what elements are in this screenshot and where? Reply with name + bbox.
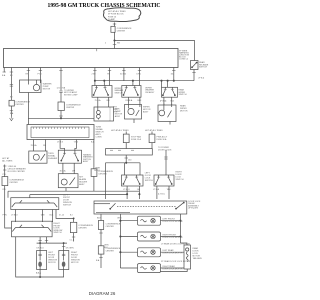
svg-text:2 B.I: 2 B.I: [92, 74, 97, 76]
connector outputs: [34, 140, 77, 152]
wiper switch S1: [92, 86, 112, 98]
svg-text:FUSE 15 A: FUSE 15 A: [131, 138, 142, 141]
switch assembly L2: [58, 150, 81, 163]
svg-text:CONN: CONN: [96, 137, 102, 139]
svg-text:DOOR LOCK MOTOR: DOOR LOCK MOTOR: [163, 269, 184, 271]
strip output: [125, 155, 127, 163]
svg-text:SWITCH: SWITCH: [199, 67, 207, 69]
wire from S9: [193, 70, 195, 81]
door lock switch feed right: [165, 150, 167, 175]
lock motor DM3: [138, 248, 161, 257]
svg-text:DK GRN: DK GRN: [66, 248, 74, 250]
svg-text:PPN: PPN: [3, 215, 8, 217]
svg-text:DK BLU: DK BLU: [37, 248, 45, 250]
svg-text:LT BLU: LT BLU: [11, 215, 18, 217]
fuse F6: [70, 222, 76, 232]
power source blob callout: [104, 8, 141, 22]
svg-text:FUSE 16: FUSE 16: [108, 16, 117, 18]
svg-text:I/P FUSE BLOCK: I/P FUSE BLOCK: [108, 14, 124, 16]
tailgate actuator: [184, 245, 191, 269]
svg-text:ASSY: ASSY: [83, 160, 89, 163]
S3 outputs: [164, 97, 172, 105]
rail node: [95, 80, 194, 82]
svg-text:T.SA: T.SA: [74, 141, 79, 144]
svg-text:RN B.A: RN B.A: [126, 99, 133, 102]
circuit breaker CB1: [2, 177, 8, 186]
svg-text:TAN: TAN: [41, 214, 45, 217]
svg-text:TM: TM: [107, 74, 110, 76]
svg-text:P B.I: P B.I: [38, 74, 43, 76]
hazard flasher L1: [29, 151, 47, 163]
svg-text:DR LK: DR LK: [94, 170, 101, 172]
switch S3: [162, 87, 178, 97]
svg-text:MOTOR: MOTOR: [71, 262, 79, 264]
svg-text:79 B.A: 79 B.A: [95, 99, 102, 102]
svg-text:HOT AT ALL TIMES: HOT AT ALL TIMES: [108, 10, 126, 13]
fuse F4: [123, 134, 129, 143]
svg-text:DPN: DPN: [137, 74, 142, 76]
svg-text:CENTER: CENTER: [15, 104, 24, 106]
steering column connector block: [27, 125, 94, 140]
pin wires below bulkhead box, left: [4, 68, 11, 101]
right feed rail: [173, 68, 175, 81]
wiper switch S2: [122, 86, 141, 98]
master switch outputs: [16, 210, 53, 223]
svg-text:DOOR LOCK MOTOR: DOOR LOCK MOTOR: [163, 253, 184, 255]
node J1: [114, 40, 115, 41]
svg-text:SWITCH: SWITCH: [145, 180, 153, 182]
svg-text:RT REAR DOOR LOCK MOTOR: RT REAR DOOR LOCK MOTOR: [161, 260, 191, 263]
svg-text:JT B.S: JT B.S: [57, 142, 64, 144]
lock motor DM1: [138, 216, 161, 225]
svg-text:IN CONV CENTER: IN CONV CENTER: [8, 171, 26, 173]
svg-text:CENTER: CENTER: [106, 226, 115, 228]
svg-text:5 L.A: 5 L.A: [59, 214, 64, 217]
door lock switch SA: [122, 175, 144, 186]
fuse F3 feed: [93, 140, 95, 169]
fuse C1: [9, 100, 14, 106]
svg-text:BLK: BLK: [138, 100, 142, 102]
ground G103: [10, 117, 14, 121]
SA SB outputs: [127, 186, 169, 199]
fuse F7: [98, 246, 104, 254]
switch label: [115, 88, 124, 95]
svg-text:BLK: BLK: [50, 215, 54, 217]
svg-text:1995-98 GM TRUCK CHASSIS SCHEM: 1995-98 GM TRUCK CHASSIS SCHEMATIC: [48, 2, 161, 9]
power window feed label: [2, 157, 13, 163]
svg-text:SW ASSY: SW ASSY: [145, 91, 155, 94]
svg-text:CENTER: CENTER: [117, 31, 126, 33]
lock motor DM2: [138, 232, 161, 241]
svg-text:CENTER: CENTER: [9, 182, 18, 184]
S2 output wires: [129, 97, 140, 103]
svg-text:78 B.A: 78 B.A: [31, 144, 38, 147]
motor module MB: [125, 105, 142, 120]
L2 outputs: [63, 163, 74, 174]
svg-text:ASSY: ASSY: [79, 183, 85, 186]
text block I/P harness: [179, 50, 190, 60]
wire CB to right window switch: [5, 186, 12, 228]
S1 output wires: [98, 97, 109, 107]
branch wires to lock motors: [120, 221, 137, 268]
svg-text:SWITCH: SWITCH: [179, 94, 187, 96]
svg-text:MTR: MTR: [113, 112, 118, 114]
svg-text:MOTOR: MOTOR: [48, 262, 56, 264]
svg-text:CENTER: CENTER: [78, 228, 87, 230]
svg-text:MOTOR: MOTOR: [180, 111, 188, 113]
washer pump motor M1: [20, 80, 42, 93]
fuse A: [100, 214, 102, 221]
door lock switch SB: [154, 175, 174, 186]
svg-text:30 B.A: 30 B.A: [60, 170, 67, 173]
right window switch: [12, 221, 53, 237]
key buzzer L3: [58, 174, 78, 188]
title: [48, 2, 161, 9]
wire from fuse block: [114, 23, 116, 49]
left window master switch: [11, 198, 59, 210]
svg-text:CENTER: CENTER: [106, 251, 115, 253]
junction block feed: [28, 93, 94, 125]
fuse F2: [58, 102, 64, 111]
svg-text:IN ENG COMP: IN ENG COMP: [64, 95, 78, 97]
svg-text:ORN: ORN: [117, 218, 122, 220]
svg-text:(P B.I): (P B.I): [199, 78, 205, 80]
svg-text:A B.A: A B.A: [36, 272, 42, 275]
lock motor DM4: [138, 264, 161, 273]
svg-text:5 L.B: 5 L.B: [70, 239, 75, 241]
svg-text:(F B.A): (F B.A): [160, 100, 167, 103]
fuse F5: [149, 134, 155, 143]
motor module MA: [94, 107, 114, 121]
svg-text:DOOR LOCKS: DOOR LOCKS: [158, 149, 172, 151]
svg-text:MOTOR: MOTOR: [43, 88, 51, 90]
circuit breaker symbol: [4, 165, 6, 177]
svg-text:30 300: 30 300: [120, 74, 127, 76]
door lock relay assembly: [94, 201, 187, 214]
svg-text:ASSY: ASSY: [115, 115, 121, 118]
svg-text:(IF EQUIP): (IF EQUIP): [188, 208, 198, 210]
svg-text:DM: DM: [72, 171, 75, 173]
window motor WM2: [59, 251, 69, 270]
svg-text:HOT AT ALL TIMES: HOT AT ALL TIMES: [145, 129, 163, 132]
svg-text:(LT B.I): (LT B.I): [158, 194, 165, 196]
svg-text:CENTER: CENTER: [66, 107, 75, 109]
wiper switch feed rail: [95, 68, 140, 86]
svg-text:20 AMP: 20 AMP: [108, 18, 116, 21]
switch S9 (release switch): [191, 61, 199, 70]
svg-text:ALL TIMES: ALL TIMES: [2, 160, 13, 163]
convenience center strip: [106, 149, 153, 155]
window motor WM1: [37, 251, 47, 270]
svg-text:DM: DM: [43, 145, 46, 147]
svg-text:LT B.A: LT B.A: [153, 188, 160, 191]
fuse F1: [111, 26, 115, 32]
wire to right branch: [115, 41, 195, 61]
svg-text:TAILGATE: TAILGATE: [193, 257, 203, 260]
washer pump feed wires: [28, 68, 40, 81]
window switch outputs: [16, 237, 64, 277]
svg-text:FUSE 30 A: FUSE 30 A: [157, 138, 168, 141]
bulkhead connector box (instrument panel): [4, 49, 179, 68]
svg-text:SWITCH: SWITCH: [54, 232, 62, 234]
svg-text:LT BLU: LT BLU: [123, 189, 130, 191]
svg-text:SWITCH: SWITCH: [176, 179, 184, 181]
svg-text:DIAGRAM 26: DIAGRAM 26: [89, 291, 116, 296]
svg-text:SWITCH: SWITCH: [63, 204, 71, 206]
diagram caption: [89, 291, 116, 296]
svg-text:HOT AT ALL TIMES: HOT AT ALL TIMES: [111, 129, 129, 132]
svg-text:TAN: TAN: [167, 188, 171, 191]
motor module MC: [158, 105, 176, 122]
wires lock motors to actuator: [161, 221, 181, 237]
svg-text:I B.I: I B.I: [106, 100, 110, 102]
relay outputs: [120, 214, 187, 268]
svg-text:ASSY: ASSY: [143, 111, 149, 114]
svg-text:FLASHER: FLASHER: [48, 157, 58, 160]
svg-text:CONN C2: CONN C2: [179, 59, 189, 61]
interior lamp row: HOT labels: [111, 129, 163, 132]
window bus wires: [8, 191, 139, 194]
circuit breaker run to convenience center: [60, 68, 62, 91]
